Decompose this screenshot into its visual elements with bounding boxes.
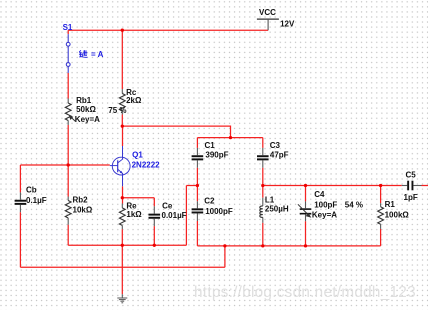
svg-text:1pF: 1pF (404, 193, 418, 202)
svg-text:2kΩ: 2kΩ (126, 96, 142, 105)
svg-text:Rb1: Rb1 (76, 96, 92, 105)
svg-text:R1: R1 (385, 200, 396, 209)
svg-text:= A: = A (91, 50, 104, 59)
svg-text:0.01µF: 0.01µF (162, 211, 187, 220)
svg-text:Key=A: Key=A (312, 211, 337, 220)
svg-text:VCC: VCC (259, 8, 276, 17)
svg-text:Q1: Q1 (132, 151, 143, 160)
svg-text:1kΩ: 1kΩ (126, 210, 142, 219)
svg-text:1000pF: 1000pF (205, 207, 233, 216)
svg-text:250µH: 250µH (265, 204, 289, 213)
svg-text:10kΩ: 10kΩ (73, 205, 93, 214)
svg-text:100pF: 100pF (314, 200, 337, 209)
svg-text:50kΩ: 50kΩ (76, 105, 96, 114)
svg-text:C2: C2 (204, 196, 215, 205)
svg-text:0.1µF: 0.1µF (26, 196, 47, 205)
svg-text:Rb2: Rb2 (73, 196, 89, 205)
svg-text:Cb: Cb (26, 186, 37, 195)
svg-text:100kΩ: 100kΩ (385, 210, 410, 219)
svg-text:2N2222: 2N2222 (132, 161, 161, 170)
svg-text:L1: L1 (265, 196, 275, 205)
svg-text:C3: C3 (270, 141, 281, 150)
svg-text:https://blog.csdn.net/mddh_123: https://blog.csdn.net/mddh_123 (194, 284, 416, 301)
svg-text:47pF: 47pF (270, 151, 289, 160)
svg-text:75 %: 75 % (108, 106, 126, 115)
svg-text:54 %: 54 % (345, 200, 363, 209)
svg-text:C1: C1 (205, 141, 216, 150)
svg-text:Ce: Ce (162, 201, 173, 210)
svg-text:S1: S1 (63, 23, 73, 32)
svg-text:Key=A: Key=A (75, 115, 100, 124)
svg-text:C5: C5 (406, 170, 417, 179)
svg-text:390pF: 390pF (205, 150, 228, 159)
svg-text:C4: C4 (314, 190, 325, 199)
svg-text:12V: 12V (280, 20, 295, 29)
